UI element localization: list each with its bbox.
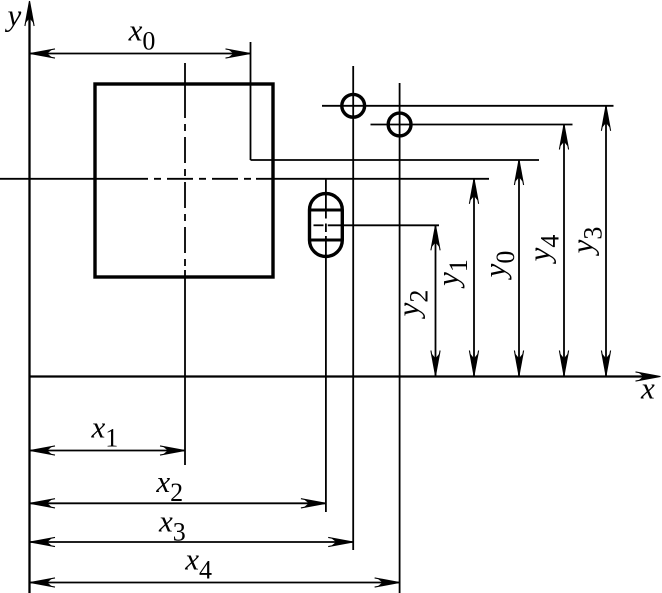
dimension y0 line — [518, 160, 520, 376]
slot vertical centerline (x2 extension) — [325, 179, 327, 219]
dimension y4 line — [563, 125, 565, 376]
dimension x4 line — [30, 582, 400, 584]
dimension x0 line — [30, 53, 251, 55]
square vertical centerline — [184, 63, 186, 92]
dimension x3 line — [30, 541, 353, 543]
x0 extension line (vertical at x=250.5) — [250, 42, 252, 160]
x axis arrowhead — [636, 372, 661, 377]
slot lower arc-center line — [310, 239, 343, 242]
circle 2 vertical centerline (x4 extension) — [399, 83, 401, 593]
y0 extension line (horizontal at y=160) — [251, 159, 540, 161]
slot center mark dash — [314, 224, 324, 226]
dimension y1 line — [473, 179, 475, 376]
square feature outline — [95, 84, 273, 277]
slot (obround hole) outline — [310, 194, 343, 257]
dimension y3 line — [605, 106, 607, 376]
circle hole 2 — [388, 113, 411, 136]
dimension x1 line — [30, 450, 185, 452]
y axis arrowhead — [25, 1, 30, 26]
circle hole 1 — [342, 94, 365, 117]
x axis — [30, 375, 655, 377]
y2 extension line from slot center — [328, 224, 439, 226]
svg-text:y: y — [5, 0, 22, 33]
circle 2 horizontal centerline (y4 extension) — [371, 124, 573, 126]
circle 1 vertical centerline (x3 extension) — [352, 66, 354, 550]
dimension x2 line — [30, 502, 326, 504]
y axis — [28, 18, 30, 593]
square horizontal centerline (y1 extension) — [0, 178, 122, 180]
slot upper arc-center line — [310, 209, 343, 212]
svg-text:x: x — [640, 371, 655, 406]
circle 1 horizontal centerline (y3 extension) — [322, 105, 614, 107]
dimension y2 line — [435, 225, 437, 375]
